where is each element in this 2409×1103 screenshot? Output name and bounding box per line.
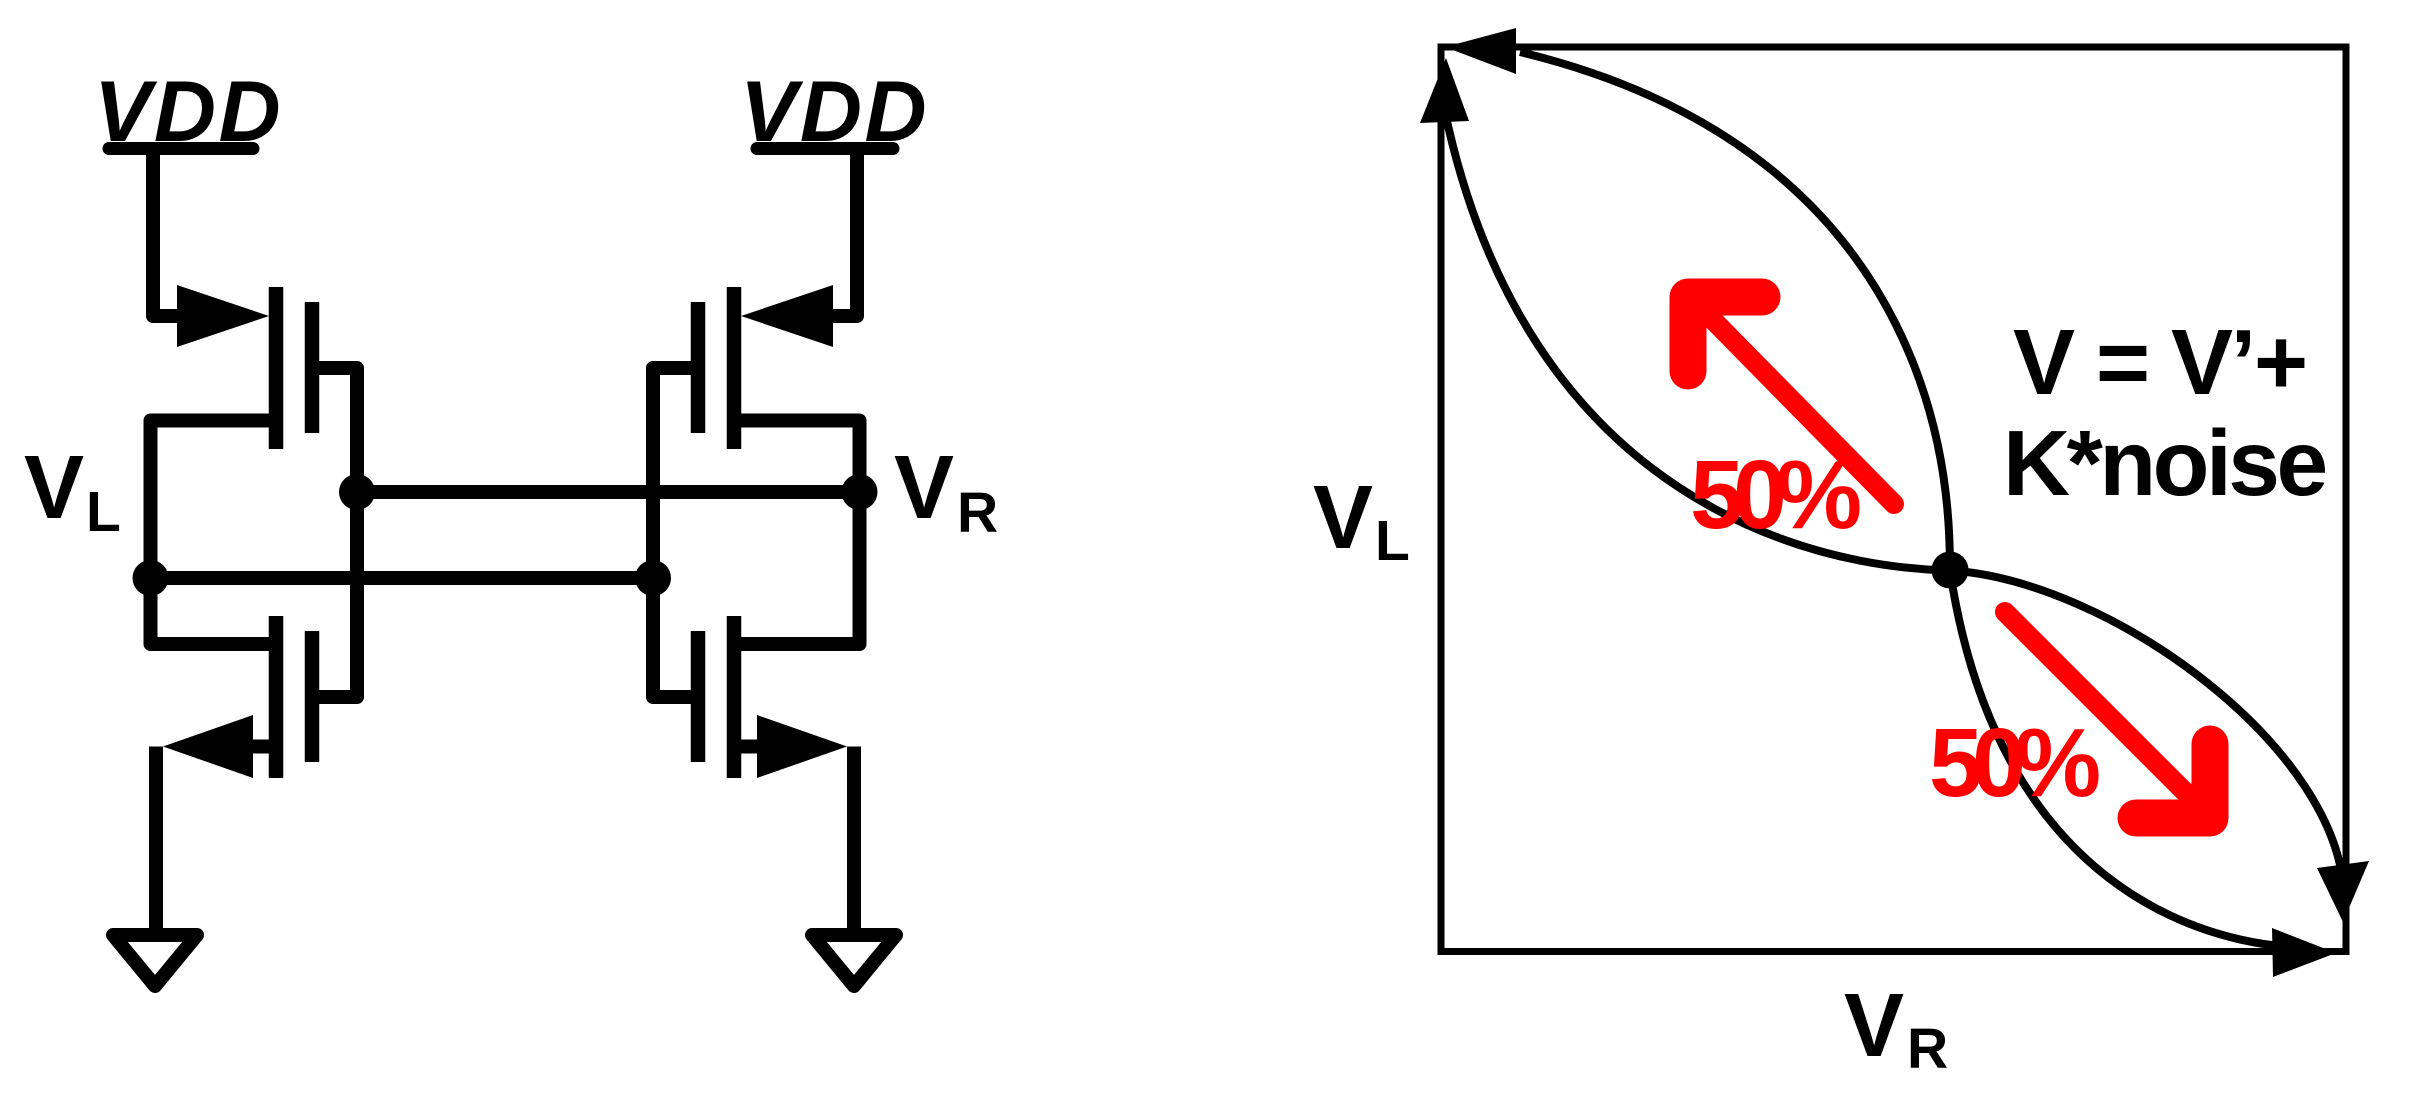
wire Q1 drain to Q3 drain (node VL) <box>151 421 270 645</box>
wire left gates (Q1,Q3) vertical <box>319 368 357 697</box>
wire VDD to PMOS M1 source <box>153 152 180 316</box>
svg-text:V: V <box>1844 976 1904 1076</box>
svg-text:50%: 50% <box>1929 708 2099 817</box>
wire Q3 source to ground <box>149 747 163 930</box>
ground symbol (left) <box>113 935 197 986</box>
transistor Q1 PMOS gate plate <box>305 302 320 433</box>
ground symbol (right) <box>812 935 896 986</box>
red arrow up-left head <box>1688 297 1762 371</box>
transistor Q4 NMOS gate plate <box>691 631 706 762</box>
arrowhead right (bottom-right corner) <box>2272 928 2336 977</box>
wire Q4 source to ground <box>847 747 861 930</box>
svg-text:V: V <box>24 438 84 538</box>
trajectory curve V (steep at center) <box>1520 52 2300 947</box>
node right-gate junction dot <box>635 560 671 596</box>
transistor Q3 NMOS gate plate <box>305 631 320 762</box>
node VL junction dot <box>133 560 169 596</box>
svg-text:V: V <box>894 438 954 538</box>
node VR junction dot <box>842 474 878 510</box>
red arrow down-right shaft <box>2005 612 2186 793</box>
svg-text:L: L <box>86 480 121 544</box>
svg-text:R: R <box>957 481 998 545</box>
trajectory curve H (shallow at center) <box>1445 112 2344 900</box>
wire right gates (Q2,Q4) vertical <box>653 368 691 697</box>
node left-gate junction dot <box>339 474 375 510</box>
wire node VR to left gates <box>357 485 860 499</box>
wire node VL to right gates <box>151 571 654 585</box>
arrowhead left (top-left corner) <box>1445 28 1516 74</box>
VDD rail underline (right) <box>757 142 893 155</box>
VDD rail underline (left) <box>109 142 253 155</box>
metastable center dot <box>1932 552 1969 589</box>
plot frame box <box>1441 47 2346 952</box>
svg-text:50%: 50% <box>1690 440 1860 549</box>
transistor Q4 NMOS source arrow <box>757 715 847 778</box>
transistor Q3 NMOS channel plate <box>269 616 284 778</box>
transistor Q3 NMOS source arrow <box>163 715 253 778</box>
wire VDD to PMOS M2 source <box>830 152 857 316</box>
transistor Q4 NMOS channel plate <box>727 616 742 778</box>
transistor Q1 PMOS channel plate <box>269 287 284 449</box>
wire Q4 arrow stub <box>740 740 759 754</box>
svg-text:V: V <box>1313 468 1373 568</box>
wire Q3 arrow stub <box>251 740 270 754</box>
transistor Q2 PMOS gate plate <box>691 302 706 433</box>
svg-text:L: L <box>1375 509 1410 573</box>
transistor Q2 PMOS source arrow <box>741 285 833 347</box>
svg-text:R: R <box>1907 1017 1948 1081</box>
arrowhead up (top-left) <box>1420 58 1469 123</box>
arrowhead down (bottom-right) <box>2317 861 2369 922</box>
svg-text:V = V’+: V = V’+ <box>2013 310 2306 414</box>
transistor Q2 PMOS channel plate <box>727 287 742 449</box>
red arrow down-right head <box>2136 744 2210 818</box>
transistor Q1 PMOS source arrow <box>177 285 269 347</box>
svg-text:K*noise: K*noise <box>2003 411 2326 515</box>
wire Q2 drain to Q4 drain (node VR) <box>741 421 860 645</box>
red arrow up-left shaft <box>1712 319 1894 504</box>
